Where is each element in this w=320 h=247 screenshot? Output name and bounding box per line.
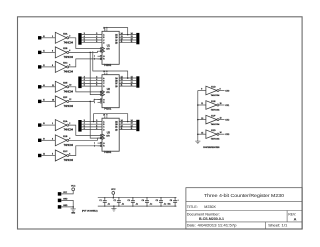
- pin number 11: [52, 85, 54, 87]
- svg-text:CK3: CK3: [225, 134, 230, 136]
- svg-text:12: 12: [220, 118, 222, 120]
- title value: [204, 204, 216, 209]
- pin label C: [103, 40, 105, 42]
- svg-text:IA: IA: [43, 153, 45, 156]
- wire gnd rail: [98, 205, 177, 207]
- pin number 2: [69, 36, 70, 38]
- pin number 3: [96, 120, 97, 122]
- svg-text:74HC04: 74HC04: [64, 57, 74, 59]
- connector J1: [78, 33, 81, 45]
- svg-text:QB: QB: [115, 81, 118, 83]
- label E2B: [63, 48, 68, 50]
- svg-text:E1B: E1B: [63, 136, 68, 138]
- svg-text:E1A: E1A: [63, 120, 68, 123]
- svg-text:12: 12: [131, 82, 133, 84]
- junction: [197, 104, 199, 106]
- pin number: [201, 89, 202, 91]
- net number: [131, 33, 133, 35]
- document number: [199, 216, 225, 221]
- power pin stub: [104, 116, 106, 118]
- pin label QC: [115, 127, 118, 129]
- wire: [41, 139, 55, 141]
- svg-text:74161: 74161: [104, 64, 112, 67]
- net number: [84, 33, 85, 35]
- wire data in D: [82, 42, 102, 44]
- wire data out QA: [119, 77, 136, 79]
- net label CK0: [225, 90, 230, 92]
- wire: [198, 133, 206, 135]
- wire enable: [69, 138, 102, 140]
- svg-text:QA: QA: [115, 33, 118, 36]
- pin number 8: [106, 28, 107, 30]
- net number: [84, 128, 85, 130]
- label 74161: [104, 151, 112, 154]
- pin number 12: [121, 82, 123, 84]
- svg-text:3: 3: [52, 50, 53, 52]
- junction: [72, 206, 74, 208]
- svg-text:CK1: CK1: [225, 105, 230, 107]
- svg-text:3: 3: [84, 33, 85, 35]
- svg-text:B: B: [103, 124, 105, 126]
- svg-text:3: 3: [84, 120, 85, 122]
- svg-text:G: G: [103, 56, 105, 58]
- inverter E2C: [55, 61, 68, 72]
- label CTR: [106, 135, 110, 137]
- svg-text:TITLE:: TITLE:: [187, 204, 198, 209]
- svg-text:G: G: [103, 143, 105, 145]
- wire data in A: [82, 34, 102, 36]
- pin label C: [103, 127, 105, 129]
- pin label 7: [94, 56, 95, 58]
- power VCC: [112, 192, 115, 198]
- pin number 4: [96, 36, 97, 38]
- svg-text:M230X: M230X: [204, 204, 216, 209]
- svg-text:.1u: .1u: [150, 203, 153, 205]
- svg-text:R: R: [103, 146, 105, 148]
- net label CK2: [225, 120, 230, 122]
- pin number 4: [69, 138, 70, 140]
- value label: [150, 203, 153, 205]
- svg-text:E1D: E1D: [211, 86, 216, 88]
- wire bus link: [90, 101, 102, 138]
- junction: [127, 34, 129, 36]
- label 74HC04: [64, 57, 74, 59]
- svg-text:.1u: .1u: [164, 203, 167, 205]
- pin label A: [103, 33, 105, 36]
- clock pin wedge: [100, 93, 104, 96]
- capacitor C1: [103, 197, 107, 207]
- svg-text:6: 6: [84, 41, 85, 43]
- inverter E2A: [55, 32, 68, 43]
- net number: [131, 123, 133, 125]
- svg-text:4: 4: [84, 123, 85, 125]
- label CTR: [106, 92, 110, 94]
- value label: [122, 203, 125, 205]
- svg-text:5: 5: [84, 82, 85, 84]
- wire data in B: [82, 80, 102, 82]
- IC U2 74161 counter: [102, 75, 119, 108]
- wire data out QB: [119, 36, 136, 38]
- pin label QD: [115, 129, 118, 131]
- pin number 14: [121, 120, 123, 122]
- label 74HC04: [211, 139, 221, 141]
- pin number 4: [96, 79, 97, 81]
- pin stub CLR: [98, 101, 102, 103]
- svg-text:CTR: CTR: [106, 92, 110, 94]
- svg-text:5: 5: [84, 39, 85, 41]
- label 74HC04: [211, 95, 221, 97]
- svg-text:9: 9: [201, 89, 202, 91]
- wire: [198, 90, 206, 92]
- net number: [84, 36, 85, 38]
- net label I9: [43, 138, 45, 140]
- junction: [113, 205, 115, 207]
- pin label 7: [94, 99, 95, 101]
- svg-text:6: 6: [96, 85, 97, 87]
- label E1B: [63, 136, 68, 138]
- svg-text:I9: I9: [43, 138, 45, 140]
- pin number 5: [96, 82, 97, 84]
- svg-text:4: 4: [96, 123, 97, 125]
- label 74HC04: [64, 91, 74, 93]
- svg-text:CTR: CTR: [106, 135, 110, 137]
- input pad I5: [38, 100, 41, 103]
- wire load: [69, 100, 102, 102]
- net number: [84, 41, 85, 43]
- label REV: [288, 212, 296, 216]
- svg-text:B: B: [103, 81, 105, 83]
- svg-text:6: 6: [84, 128, 85, 130]
- svg-text:11: 11: [131, 128, 133, 130]
- caption COUNTERS/REGISTERS: [203, 147, 220, 149]
- svg-text:4: 4: [84, 79, 85, 81]
- pin number 3: [96, 77, 97, 79]
- svg-text:VCC: VCC: [111, 189, 116, 191]
- svg-text:14: 14: [131, 120, 133, 122]
- pin number 12: [69, 99, 71, 101]
- svg-text:E2B: E2B: [63, 48, 68, 50]
- pin number out: [220, 118, 222, 120]
- connector J6: [136, 120, 139, 131]
- svg-text:VCC: VCC: [71, 185, 76, 187]
- label E1C: [63, 151, 68, 153]
- svg-text:5: 5: [96, 125, 97, 127]
- pin label B: [103, 124, 105, 126]
- pin number 10: [69, 85, 71, 87]
- svg-text:QD: QD: [115, 129, 118, 131]
- label Document Number: [187, 212, 220, 216]
- wire vcc rail: [98, 197, 177, 199]
- svg-text:2: 2: [69, 123, 70, 125]
- svg-text:QD: QD: [115, 86, 118, 88]
- svg-text:A: A: [103, 77, 105, 80]
- wire: [41, 86, 55, 88]
- clock pin wedge: [100, 47, 104, 50]
- svg-text:I0: I0: [43, 36, 45, 38]
- svg-text:E2D: E2D: [211, 130, 216, 132]
- title text: [204, 193, 285, 198]
- wire output: [219, 104, 225, 106]
- connector J5: [78, 120, 81, 132]
- label 74HC04: [211, 110, 221, 112]
- input pad I1: [38, 51, 41, 54]
- IC U3 74161 counter: [102, 118, 119, 151]
- net label GND: [63, 199, 68, 201]
- svg-text:8: 8: [106, 28, 107, 30]
- svg-text:15: 15: [201, 132, 203, 134]
- pin stub ENP: [98, 55, 102, 57]
- pin label QC: [115, 83, 118, 85]
- label E2A: [63, 33, 68, 36]
- net number: [131, 41, 133, 43]
- power pin stub: [106, 73, 108, 75]
- svg-text:4: 4: [69, 50, 70, 52]
- svg-text:14: 14: [220, 132, 222, 134]
- wire: [41, 51, 55, 53]
- pin label A: [103, 120, 105, 123]
- svg-text:10: 10: [69, 85, 71, 87]
- capacitor C5: [159, 197, 163, 207]
- label C6: [170, 200, 172, 202]
- label 74HC04: [64, 42, 74, 44]
- svg-text:8: 8: [106, 115, 107, 117]
- capacitor C2: [117, 197, 121, 207]
- svg-text:QA: QA: [115, 77, 118, 80]
- wire clear: [69, 59, 102, 67]
- pin number 8: [106, 115, 107, 117]
- value label: [164, 203, 167, 205]
- pin number 3: [96, 33, 97, 35]
- IC U1 74161 counter: [102, 31, 119, 64]
- wire data out QC: [119, 82, 136, 84]
- svg-text:U3: U3: [107, 132, 111, 135]
- wire data out QB: [119, 123, 136, 125]
- svg-text:7: 7: [94, 56, 95, 58]
- net number: [84, 82, 85, 84]
- connector J3: [78, 77, 81, 89]
- svg-text:3: 3: [96, 77, 97, 79]
- svg-text:E2A: E2A: [63, 33, 68, 36]
- label E1F: [211, 115, 216, 117]
- pin number out: [220, 132, 222, 134]
- label 74HC04: [64, 106, 74, 108]
- label 74161: [104, 64, 112, 67]
- pin number 6: [96, 41, 97, 43]
- pin label D: [103, 129, 105, 131]
- svg-text:E1C: E1C: [63, 151, 68, 153]
- wire data out QA: [119, 121, 136, 123]
- pin label CLR: [103, 146, 105, 148]
- clock pin wedge: [100, 134, 104, 137]
- input pad P3: [58, 205, 62, 209]
- svg-text:10: 10: [220, 103, 222, 105]
- svg-text:74HC04: 74HC04: [64, 130, 74, 132]
- power VCC: [72, 188, 75, 191]
- svg-text:74HC04: 74HC04: [64, 106, 74, 108]
- svg-text:13: 13: [131, 123, 133, 125]
- svg-text:QC: QC: [115, 127, 118, 129]
- svg-text:3: 3: [84, 77, 85, 79]
- pin number 11: [121, 41, 123, 43]
- svg-text:GND: GND: [71, 213, 76, 215]
- svg-text:QB: QB: [115, 124, 118, 126]
- net label CK3: [225, 134, 230, 136]
- clock pin wedge: [100, 91, 104, 94]
- svg-text:12: 12: [131, 39, 133, 41]
- inverter E2F: [55, 96, 68, 107]
- pin label ENP: [103, 56, 105, 58]
- net number: [84, 77, 85, 79]
- label Date: [187, 223, 196, 227]
- svg-text:14: 14: [121, 77, 123, 79]
- svg-text:4/04/2013 11:41:57p: 4/04/2013 11:41:57p: [198, 223, 237, 227]
- svg-text:74HC04: 74HC04: [64, 42, 74, 44]
- wire: [198, 104, 206, 106]
- svg-text:4: 4: [84, 36, 85, 38]
- wire: [41, 66, 55, 68]
- input pad IA: [38, 154, 41, 157]
- pin number: [201, 132, 203, 134]
- net label I2: [43, 65, 45, 67]
- svg-text:.1u: .1u: [136, 203, 139, 205]
- svg-text:4: 4: [96, 36, 97, 38]
- svg-text:C: C: [103, 127, 105, 129]
- label E1A: [63, 120, 68, 123]
- net number: [84, 123, 85, 125]
- capacitor C4: [145, 197, 149, 207]
- power pin stub: [104, 73, 106, 75]
- pin label 1: [94, 146, 95, 148]
- net number: [131, 125, 133, 127]
- net label I0: [43, 36, 45, 38]
- svg-text:13: 13: [121, 79, 123, 81]
- svg-text:C5: C5: [156, 200, 158, 202]
- svg-text:1: 1: [94, 102, 95, 104]
- value label: [136, 203, 139, 205]
- svg-text:3: 3: [52, 138, 53, 140]
- label E2C: [63, 63, 68, 65]
- pin number out: [220, 88, 221, 90]
- svg-text:1: 1: [52, 123, 53, 125]
- svg-text:A: A: [294, 216, 297, 221]
- wire vcc: [61, 191, 73, 194]
- svg-text:74HC04: 74HC04: [64, 91, 74, 93]
- label TITLE: [187, 204, 198, 209]
- pin label ENP: [103, 143, 105, 145]
- svg-text:CK0: CK0: [225, 90, 230, 92]
- svg-text:U1: U1: [107, 45, 111, 48]
- svg-text:14: 14: [131, 77, 133, 79]
- pin number: [201, 103, 203, 105]
- svg-text:(PUT ON SHIELD): (PUT ON SHIELD): [82, 211, 98, 213]
- net number: [84, 85, 85, 87]
- svg-text:E2C: E2C: [63, 63, 68, 65]
- inverter E1C: [55, 150, 68, 161]
- svg-text:6: 6: [84, 85, 85, 87]
- svg-text:+: +: [178, 199, 180, 201]
- pin number 2: [69, 123, 70, 125]
- pin stub ENP: [98, 142, 102, 144]
- svg-text:I1: I1: [43, 50, 45, 52]
- pin label 1: [94, 59, 95, 61]
- junction: [127, 121, 129, 123]
- note PUT ON SHIELD: [82, 211, 98, 213]
- svg-text:CK2: CK2: [225, 120, 230, 122]
- svg-text:R: R: [103, 59, 105, 61]
- wire data in B: [82, 123, 102, 125]
- pin number 5: [52, 154, 53, 156]
- svg-text:11: 11: [131, 85, 133, 87]
- pin label B: [103, 81, 105, 83]
- svg-text:B-CS-M230-0-1: B-CS-M230-0-1: [199, 216, 225, 221]
- pin number 4: [96, 123, 97, 125]
- power pin stub: [106, 29, 108, 31]
- wire data in A: [82, 121, 102, 123]
- label U2: [107, 88, 111, 91]
- pin number 12: [121, 39, 123, 41]
- wire output: [219, 119, 225, 121]
- svg-text:Sheet: 1/1: Sheet: 1/1: [268, 223, 287, 227]
- label U3: [107, 132, 111, 135]
- svg-text:E2F: E2F: [63, 97, 68, 99]
- svg-text:11: 11: [201, 103, 203, 105]
- svg-text:11: 11: [52, 85, 54, 87]
- wire data in C: [82, 39, 102, 41]
- label C3: [128, 200, 130, 202]
- wire: [41, 124, 55, 126]
- net label I4: [43, 85, 45, 87]
- svg-text:G: G: [103, 99, 105, 101]
- label 74161: [104, 108, 112, 111]
- pin number 16: [103, 71, 105, 73]
- ground: [111, 206, 116, 211]
- svg-text:11: 11: [131, 41, 133, 43]
- pin label QA: [115, 33, 118, 36]
- pin label D: [103, 43, 105, 45]
- svg-text:C3: C3: [128, 200, 130, 202]
- svg-text:8: 8: [220, 88, 221, 90]
- pin number 6: [96, 128, 97, 130]
- wire gnd: [61, 200, 73, 207]
- input pad I4: [38, 85, 41, 88]
- label GND: [71, 213, 76, 215]
- wire gnd: [61, 207, 73, 209]
- wire data out QA: [119, 34, 136, 36]
- svg-text:A: A: [103, 33, 105, 36]
- svg-text:QA: QA: [115, 120, 118, 123]
- rev value: [294, 216, 297, 221]
- svg-text:D: D: [103, 129, 105, 131]
- pin number 3: [52, 138, 53, 140]
- net number: [131, 79, 133, 81]
- pin number 5: [52, 65, 53, 67]
- label 74HC04: [211, 124, 221, 126]
- pin label A: [103, 77, 105, 80]
- svg-text:CTR: CTR: [106, 49, 110, 51]
- wire output: [219, 90, 225, 92]
- svg-text:6: 6: [69, 65, 70, 67]
- svg-text:C6: C6: [170, 200, 172, 202]
- svg-text:13: 13: [201, 118, 203, 120]
- wire data out QC: [119, 39, 136, 41]
- svg-text:10u: 10u: [168, 203, 171, 205]
- svg-text:5: 5: [52, 154, 53, 156]
- inverter E1A: [55, 120, 68, 131]
- svg-text:C2: C2: [114, 200, 116, 202]
- wire clear: [69, 146, 102, 156]
- wire data in C: [82, 82, 102, 84]
- label E2D: [211, 130, 216, 132]
